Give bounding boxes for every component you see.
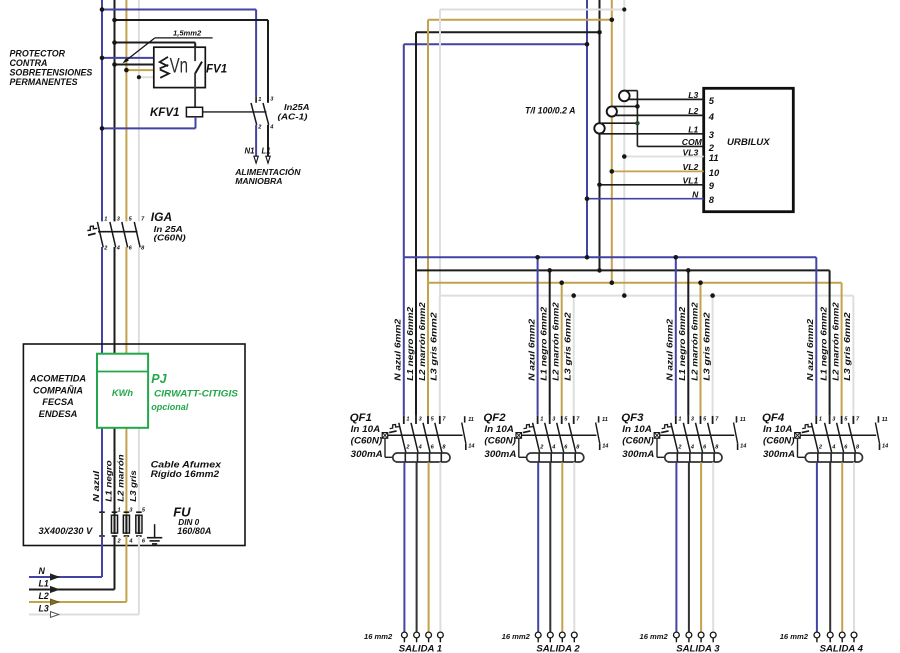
label In 25A: [154, 224, 183, 234]
svg-text:8: 8: [709, 194, 715, 205]
terminal arrow N: [51, 574, 59, 580]
label L3 pin: [688, 90, 698, 100]
relay coil KFV1: [186, 107, 202, 117]
wire N top run to right riser: [404, 43, 587, 45]
label Cable Afumex Rigido 16mm2: [151, 460, 222, 480]
pin 4: [269, 125, 274, 131]
enclosure box acometida: [23, 344, 245, 546]
label 16 mm2 QF3: [640, 632, 669, 641]
node N riser-bus junction: [585, 255, 590, 260]
svg-text:11: 11: [882, 417, 888, 423]
QF2 trip unit box: [516, 433, 522, 439]
QF1 pole 4 top stub: [439, 416, 441, 424]
wire QF4 L3 feeder: [852, 296, 854, 416]
IGA pin numbers: [103, 217, 145, 252]
label 16 mm2 QF2: [502, 632, 531, 641]
svg-text:L2: L2: [688, 106, 698, 116]
terminal circle QF3-2: [686, 632, 692, 642]
svg-text:L1: L1: [688, 125, 698, 135]
pin 10: [709, 167, 720, 178]
svg-text:N azul 6mm2: N azul 6mm2: [805, 318, 815, 380]
QF2 pole 3 top stub: [561, 416, 563, 424]
QF3 trip unit box: [654, 433, 660, 439]
svg-text:In 10A: In 10A: [351, 424, 381, 434]
node L2 top junction: [610, 18, 615, 23]
wire QF2 output L3: [573, 453, 576, 632]
svg-text:16 mm2: 16 mm2: [502, 632, 531, 641]
node N URBILUX tap: [585, 196, 590, 201]
wire FV1 output to coil: [194, 88, 196, 108]
label PJ: [151, 372, 167, 386]
label QF2 N azul 6mm2: [526, 318, 536, 380]
svg-text:VL1: VL1: [683, 176, 699, 186]
label SALIDA 4: [820, 643, 864, 653]
wire N service entrance: [29, 536, 102, 577]
svg-text:9: 9: [709, 180, 715, 191]
QF4 pole 4 top stub: [852, 416, 854, 424]
QF1 pole 3 top stub: [427, 416, 429, 424]
circuit breaker QF1 blades: [399, 423, 442, 453]
svg-text:16 mm2: 16 mm2: [364, 632, 393, 641]
svg-text:N azul 6mm2: N azul 6mm2: [665, 318, 675, 380]
label N pin: [692, 190, 699, 200]
QF3 crossbar: [660, 434, 735, 436]
node QF3 N tap: [674, 255, 679, 260]
QF1 pin numbers: [405, 417, 446, 451]
svg-text:URBILUX: URBILUX: [727, 137, 770, 148]
QF3 pole 1 top stub: [675, 416, 677, 424]
QF2 pole 2 top stub: [549, 416, 551, 424]
wire L3 riser (IGA to fuse): [138, 247, 140, 515]
wire L2 riser (top section): [125, 0, 127, 221]
svg-text:Vn: Vn: [170, 53, 188, 77]
terminal circle QF4-3: [839, 632, 845, 642]
wire QF3 L1 feeder: [687, 270, 689, 416]
svg-text:In 10A: In 10A: [622, 424, 652, 434]
label L3 terminal: [39, 604, 49, 614]
label QF4 N azul 6mm2: [805, 318, 815, 380]
wire QF1 output L2: [428, 453, 431, 632]
svg-text:11: 11: [709, 152, 719, 163]
svg-text:Cable Afumex: Cable Afumex: [151, 460, 222, 470]
QF4 RCD link: [798, 438, 805, 457]
svg-text:L2 marrón 6mm2: L2 marrón 6mm2: [551, 302, 561, 381]
wire N input to FV1: [102, 57, 154, 59]
svg-text:300mA: 300mA: [484, 449, 516, 459]
pin 11 QF1: [468, 417, 474, 423]
QF4 pin numbers: [818, 417, 860, 451]
label N1 L1: [245, 147, 271, 156]
QF2 RCD link: [519, 438, 526, 457]
label KWh: [112, 388, 133, 398]
svg-text:PROTECTOR: PROTECTOR: [10, 48, 66, 58]
svg-text:VL3: VL3: [683, 147, 699, 157]
wire QF2 output N: [537, 453, 540, 632]
wire QF4 output N: [816, 453, 819, 632]
svg-text:FECSA: FECSA: [42, 397, 74, 407]
pin 4: [708, 111, 715, 122]
node L3 riser-bus junction: [622, 293, 627, 298]
label (C60N) QF4: [763, 436, 795, 446]
wire L2 middle riser: [427, 20, 429, 283]
pin 2 URBILUX: [708, 142, 715, 153]
wire QF1 L3 feeder: [439, 296, 441, 416]
wire QF1 output L1: [416, 453, 419, 632]
svg-text:L1: L1: [39, 579, 49, 589]
svg-text:L3 gris 6mm2: L3 gris 6mm2: [563, 312, 573, 381]
label N azul (cable): [91, 470, 101, 502]
QF4 crossbar: [800, 434, 876, 436]
wire URBILUX pin 4 (L2): [616, 114, 704, 116]
svg-text:14: 14: [468, 443, 475, 449]
label CIRWATT-CITIGIS: [154, 389, 238, 399]
bus L3 distribution: [440, 295, 853, 297]
CT secondary bus to COM: [637, 91, 703, 147]
svg-text:KFV1: KFV1: [150, 107, 179, 119]
svg-text:N: N: [692, 190, 699, 200]
svg-text:MANIOBRA: MANIOBRA: [235, 176, 282, 186]
svg-text:1: 1: [104, 217, 107, 223]
QF3 RCD link: [657, 438, 664, 457]
wire L1 riser (top section): [114, 0, 116, 221]
label QF2 L2 marron 6mm2: [551, 302, 561, 381]
QF4 handle: [802, 425, 812, 433]
pin 14 QF3: [740, 443, 747, 449]
node L3 top junction: [622, 7, 626, 11]
svg-text:ENDESA: ENDESA: [39, 409, 78, 419]
wire QF3 L3 feeder: [712, 296, 714, 416]
svg-text:KWh: KWh: [112, 388, 133, 398]
current transformer T/I L2: [607, 106, 617, 116]
wire QF1 L1 feeder: [415, 270, 417, 416]
svg-text:IGA: IGA: [151, 210, 172, 224]
svg-text:COM: COM: [682, 137, 703, 147]
wire coil to contact mechanical link: [203, 111, 267, 113]
label QF4: [762, 412, 785, 424]
svg-text:(C60N): (C60N): [763, 436, 795, 446]
svg-text:(C60N): (C60N): [484, 436, 516, 446]
wire L1 middle riser: [415, 32, 417, 270]
svg-text:N azul 6mm2: N azul 6mm2: [526, 318, 536, 380]
QF3 pin numbers: [677, 417, 719, 451]
pin 11 QF2: [602, 417, 608, 423]
svg-text:T/I 100/0.2 A: T/I 100/0.2 A: [525, 105, 576, 115]
node L2 riser-bus junction: [610, 280, 615, 285]
QF4 trip unit box: [795, 433, 801, 439]
svg-text:1: 1: [118, 508, 121, 514]
node coil return junction: [100, 126, 105, 131]
pin 11 QF4: [882, 417, 888, 423]
label (C60N) QF1: [351, 436, 383, 446]
svg-text:SOBRETENSIONES: SOBRETENSIONES: [10, 67, 93, 77]
svg-text:L3: L3: [39, 604, 49, 614]
svg-text:L1 negro 6mm2: L1 negro 6mm2: [677, 306, 687, 380]
label L3 gris (cable): [128, 470, 138, 502]
wire QF1 N feeder: [403, 257, 405, 416]
pin 14 QF4: [882, 443, 889, 449]
svg-text:L2 marrón 6mm2: L2 marrón 6mm2: [830, 302, 840, 381]
FV1 internal switch blade: [195, 62, 202, 74]
label L1 terminal: [39, 579, 49, 589]
QF2 handle: [523, 425, 533, 433]
node QF3 L2 tap: [698, 280, 703, 285]
svg-text:300mA: 300mA: [351, 449, 383, 459]
wire URBILUX pin 8 (N): [587, 198, 704, 200]
label QF1 L2 marron 6mm2: [417, 302, 427, 381]
terminal arrow L2: [51, 599, 59, 605]
wire L1 riser (IGA to fuse): [114, 247, 116, 515]
wire N right riser (page top): [586, 0, 588, 44]
label SALIDA 3: [676, 643, 720, 653]
meter PJ box: [97, 354, 148, 428]
label In 10A QF2: [484, 424, 514, 434]
RCD toroid QF3 300mA: [665, 453, 722, 462]
meter PJ divider: [97, 371, 148, 373]
svg-text:1: 1: [406, 417, 409, 423]
node L1 URBILUX tap: [597, 183, 602, 188]
label (C60N) QF2: [484, 436, 516, 446]
svg-text:SALIDA 2: SALIDA 2: [536, 643, 580, 653]
wire contact 2 to N1 arrow: [255, 125, 257, 156]
wire N right riser to bus: [586, 44, 588, 257]
terminal arrow L1: [51, 587, 59, 593]
svg-text:QF3: QF3: [621, 412, 644, 424]
node L1 1,5mm2 junction: [112, 40, 117, 45]
svg-text:SALIDA 3: SALIDA 3: [676, 643, 720, 653]
QF1 crossbar: [388, 434, 463, 436]
terminal arrow L1: [266, 156, 270, 163]
IGA handle: [87, 226, 97, 235]
fuse FU pole L3: [136, 508, 146, 545]
current transformer T/I L3: [619, 91, 630, 102]
svg-text:14: 14: [740, 443, 747, 449]
label 300mA QF1: [351, 449, 383, 459]
terminal arrow L3: [51, 612, 59, 618]
svg-text:1: 1: [819, 417, 822, 423]
svg-text:L3: L3: [688, 90, 698, 100]
node QF2 L2 tap: [559, 280, 564, 285]
label COM pin: [682, 137, 703, 147]
wire N riser (top section): [101, 0, 103, 221]
label QF1: [350, 412, 372, 424]
node QF2 L1 tap: [547, 268, 552, 273]
analyzer URBILUX box: [704, 88, 794, 211]
FV1 symbol greater-than: [160, 70, 169, 78]
terminal arrow N1: [254, 156, 258, 163]
svg-text:N1: N1: [245, 147, 255, 156]
ground: [147, 524, 162, 544]
label SALIDA 2: [536, 643, 580, 653]
wire QF1 output N: [403, 453, 406, 632]
label In 10A QF1: [351, 424, 381, 434]
label QF4 L2 marron 6mm2: [830, 302, 840, 381]
label ACOMETIDA COMPANIA FECSA ENDESA: [29, 374, 87, 419]
wire QF2 output L2: [561, 453, 564, 632]
circuit breaker QF3 blades: [671, 423, 715, 453]
label T/I 100/0.2 A: [525, 105, 576, 115]
wire QF2 L3 feeder: [573, 296, 575, 416]
wire QF3 output L1: [688, 453, 691, 632]
contact KFV1 pole 1-2 top stub: [255, 96, 257, 102]
svg-text:QF2: QF2: [483, 412, 506, 424]
pin 1: [258, 97, 261, 103]
wire L2 service entrance: [29, 536, 126, 602]
label VL2 pin: [683, 162, 699, 172]
label QF4 L1 negro 6mm2: [818, 306, 828, 380]
label L1 negro (cable): [103, 460, 113, 502]
label 300mA QF3: [622, 449, 654, 459]
label VL1 pin: [683, 176, 699, 186]
wire URBILUX pin 9 (VL1): [600, 184, 704, 186]
CT L1 top lead: [600, 122, 638, 124]
QF2 pole 1 top stub: [537, 416, 539, 424]
svg-text:In 10A: In 10A: [484, 424, 514, 434]
node QF2 N tap: [535, 255, 540, 260]
wire L3 right riser to bus: [623, 10, 625, 296]
FV1 symbol less-than: [160, 57, 168, 66]
svg-text:L1 negro: L1 negro: [103, 460, 113, 502]
wire N riser (IGA to fuse): [101, 247, 103, 512]
QF2 crossbar: [521, 434, 596, 436]
node QF3 L3 tap: [710, 293, 715, 298]
wire QF2 N feeder: [537, 257, 539, 416]
pin 11: [709, 152, 719, 163]
terminal circle QF1-4: [438, 632, 444, 642]
node CT L2 COM junction: [635, 104, 640, 109]
label DIN 0: [178, 518, 199, 527]
svg-text:L3 gris: L3 gris: [128, 470, 138, 502]
label (AC-1): [278, 111, 308, 121]
wire QF1 output L3: [439, 453, 442, 632]
QF2 pin numbers: [539, 417, 580, 451]
FV1 label Vn: [170, 53, 188, 77]
terminal circle QF1-1: [402, 632, 408, 642]
label In 10A QF4: [763, 424, 793, 434]
label 16 mm2 QF4: [780, 632, 809, 641]
terminal circle QF2-1: [535, 632, 541, 642]
svg-text:QF1: QF1: [350, 412, 372, 424]
wire L3 top run to right riser: [440, 9, 624, 11]
terminal circle QF1-3: [426, 632, 432, 642]
wire L1 input to FV1: [115, 64, 154, 66]
fuse N disconnect ticks: [99, 512, 105, 536]
svg-text:L2 marrón 6mm2: L2 marrón 6mm2: [689, 302, 699, 381]
bus L1 distribution: [416, 269, 830, 271]
label 1,5mm2 callout: [122, 29, 212, 64]
wire L2 right riser to bus: [611, 20, 613, 283]
svg-text:14: 14: [602, 443, 609, 449]
node L1 top junction: [597, 30, 602, 35]
svg-text:5: 5: [709, 95, 715, 106]
wire QF3 N feeder: [675, 257, 677, 416]
label QF3 L3 gris 6mm2: [701, 312, 711, 381]
label In 10A QF3: [622, 424, 652, 434]
label L2 pin: [688, 106, 698, 116]
label QF2: [483, 412, 506, 424]
terminal circle QF2-4: [571, 632, 577, 642]
label FV1: [206, 64, 227, 76]
label N terminal: [39, 566, 46, 576]
node L1 riser-bus junction: [597, 268, 602, 273]
fuse FU pole L1: [111, 508, 121, 545]
wire QF4 L2 feeder: [841, 283, 843, 416]
svg-text:L3 gris 6mm2: L3 gris 6mm2: [842, 312, 852, 381]
wire QF3 output L2: [700, 453, 703, 632]
terminal circle QF3-1: [674, 632, 680, 642]
wire URBILUX pin 10 (VL2): [612, 170, 704, 172]
label URBILUX: [727, 137, 770, 148]
pin 14 QF1: [468, 443, 475, 449]
wire N middle riser: [403, 44, 405, 257]
pin 2: [257, 125, 262, 131]
svg-text:FV1: FV1: [206, 64, 227, 76]
svg-text:VL2: VL2: [683, 162, 699, 172]
wire coil return (blue): [102, 117, 196, 129]
label 3X400/230 V: [39, 526, 94, 536]
wire URBILUX pin 11 (VL3): [624, 156, 703, 158]
QF1 trip unit box: [382, 433, 388, 439]
svg-text:L1 negro 6mm2: L1 negro 6mm2: [405, 306, 415, 380]
node N top junction: [585, 42, 590, 47]
node L1 branch junction: [112, 18, 117, 23]
svg-text:(AC-1): (AC-1): [278, 111, 308, 121]
QF4 pole 2 top stub: [829, 416, 831, 424]
terminal circle QF4-1: [814, 632, 820, 642]
wire QF3 output L3: [712, 453, 715, 632]
label QF4 L3 gris 6mm2: [842, 312, 852, 381]
svg-text:L2 marrón 6mm2: L2 marrón 6mm2: [417, 302, 427, 381]
label FU: [173, 504, 191, 519]
svg-text:(C60N): (C60N): [351, 436, 383, 446]
svg-text:3X400/230 V: 3X400/230 V: [39, 526, 94, 536]
label KFV1: [150, 107, 179, 119]
bus L2 distribution: [428, 282, 842, 284]
label L2 marron (cable): [115, 454, 125, 502]
FV1 internal switch wire upper: [194, 47, 196, 61]
contact KFV1 pole 1-2 blade: [251, 103, 257, 125]
svg-text:16 mm2: 16 mm2: [780, 632, 809, 641]
IGA crossbar: [98, 231, 138, 233]
surge protector FV1 box: [154, 47, 206, 87]
label QF3 L2 marron 6mm2: [689, 302, 699, 381]
svg-text:L1 negro 6mm2: L1 negro 6mm2: [539, 306, 549, 380]
svg-text:14: 14: [882, 443, 889, 449]
label 16 mm2 QF1: [364, 632, 393, 641]
terminal circle QF2-3: [559, 632, 565, 642]
label QF1 L3 gris 6mm2: [429, 312, 439, 381]
RCD toroid QF4 300mA: [805, 453, 862, 462]
node L2 FV1 junction: [124, 68, 129, 73]
svg-text:SALIDA 4: SALIDA 4: [820, 643, 864, 653]
wire QF3 L2 feeder: [700, 283, 702, 416]
svg-text:CONTRA: CONTRA: [10, 58, 48, 68]
label 300mA QF2: [484, 449, 516, 459]
label L2 terminal: [39, 591, 49, 601]
label QF3 L1 negro 6mm2: [677, 306, 687, 380]
node QF3 L1 tap: [686, 268, 691, 273]
contact KFV1 pole 3-4 blade: [263, 103, 269, 125]
label SALIDA 1: [399, 643, 442, 653]
node QF2 L3 tap: [571, 293, 576, 298]
pin 14 QF2: [602, 443, 609, 449]
label 300mA QF4: [763, 449, 795, 459]
QF1 pole 1 top stub: [403, 416, 405, 424]
pin 3: [709, 129, 715, 140]
terminal circle QF2-2: [547, 632, 553, 642]
svg-text:In 10A: In 10A: [763, 424, 793, 434]
svg-text:L3 gris 6mm2: L3 gris 6mm2: [429, 312, 439, 381]
node L1 FV1 junction: [112, 62, 117, 67]
